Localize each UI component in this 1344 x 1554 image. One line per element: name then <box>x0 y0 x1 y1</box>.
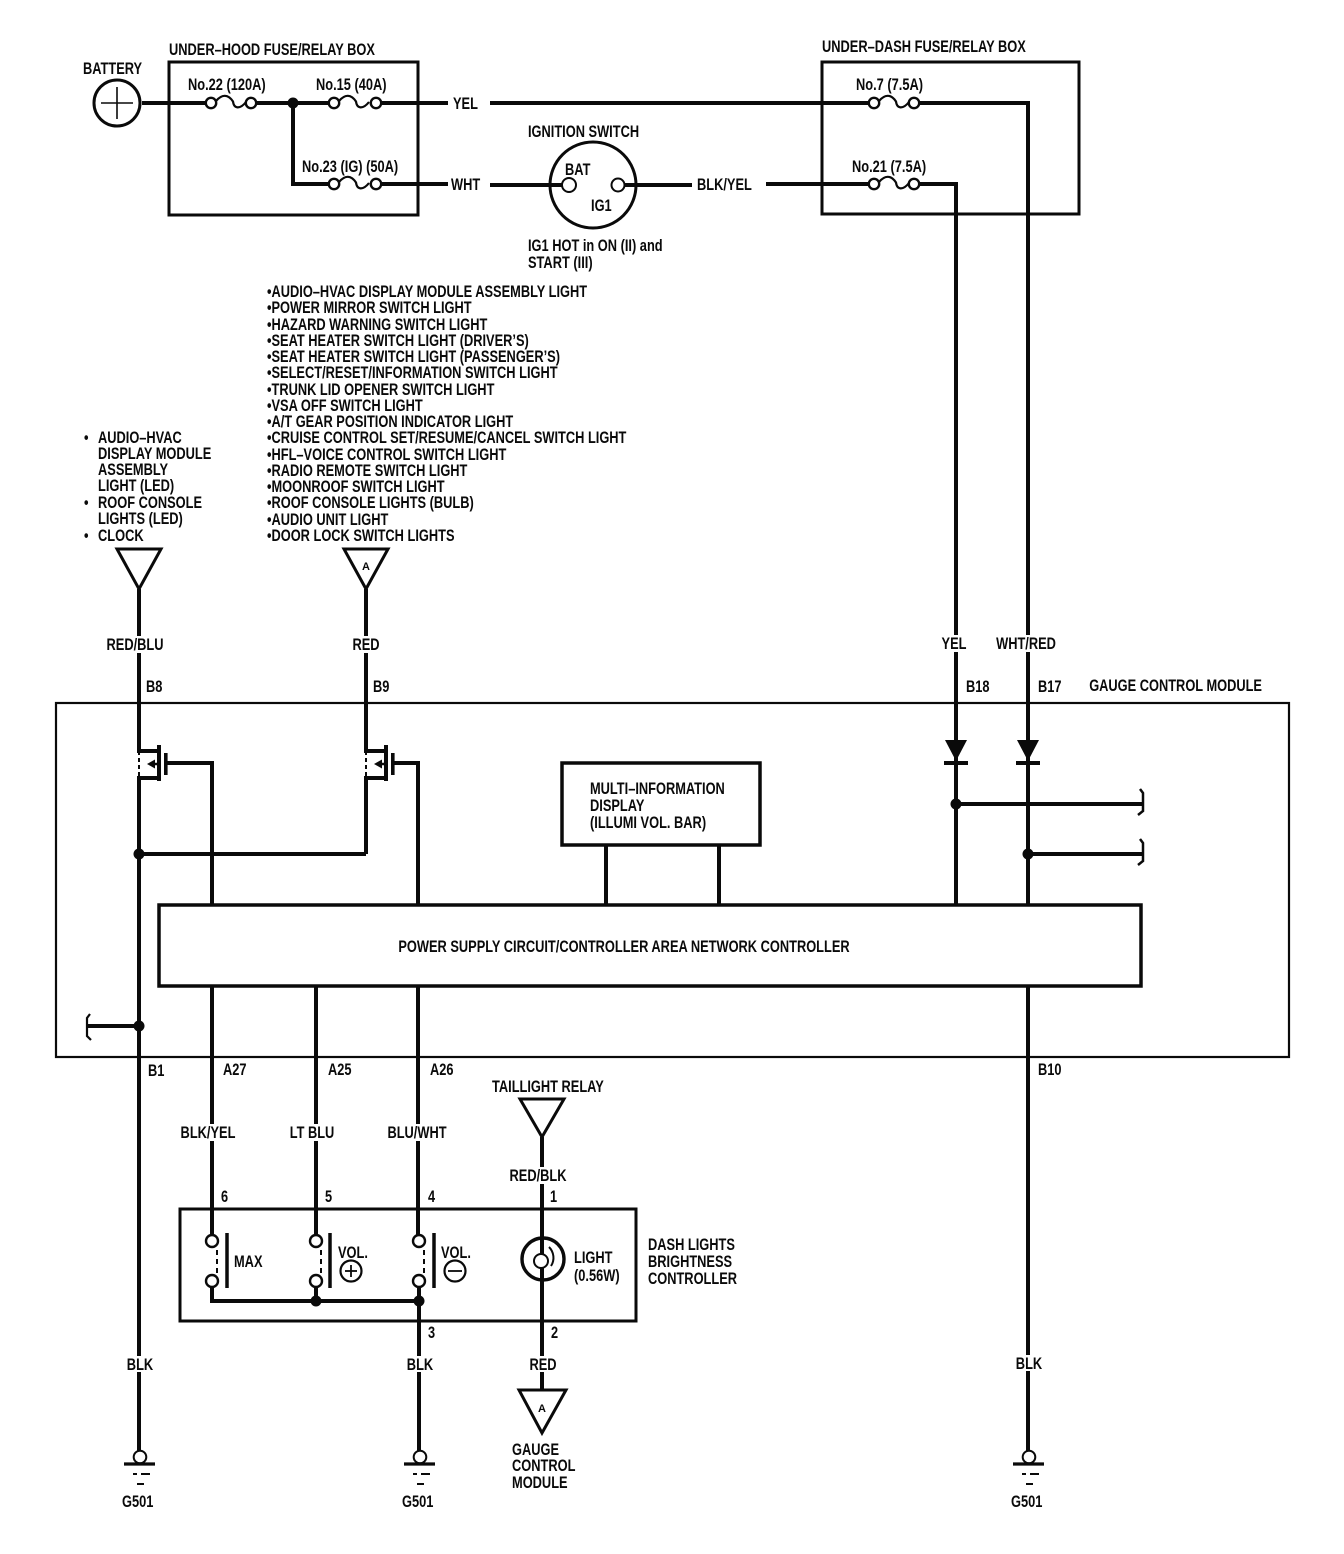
svg-text:•ROOF CONSOLE LIGHTS (BULB): •ROOF CONSOLE LIGHTS (BULB) <box>267 494 474 512</box>
svg-text:B17: B17 <box>1038 678 1062 696</box>
ground G501 middle <box>402 1451 435 1511</box>
svg-text:5: 5 <box>325 1188 332 1206</box>
wire into fuse No.21 <box>822 182 869 186</box>
wire fuse No.22 to junction <box>257 101 300 105</box>
wire YEL fuse No.15 to under-dash box <box>382 95 822 113</box>
svg-text:GAUGE CONTROL MODULE: GAUGE CONTROL MODULE <box>1089 677 1262 695</box>
wire A27 from controller <box>210 986 214 1057</box>
svg-text:VOL.: VOL. <box>441 1244 471 1262</box>
svg-text:LIGHT (LED): LIGHT (LED) <box>98 477 174 495</box>
svg-text:B1: B1 <box>148 1062 164 1080</box>
wire WHT/RED under-dash to module B17 <box>993 214 1059 703</box>
transistor Q1 <box>139 703 168 854</box>
wire RED/BLK relay to pin 1 <box>506 1137 570 1253</box>
svg-text:CONTROL: CONTROL <box>512 1457 575 1475</box>
svg-text:G501: G501 <box>402 1493 433 1511</box>
svg-text:No.23 (IG) (50A): No.23 (IG) (50A) <box>302 158 398 176</box>
wire into fuse No.7 <box>822 101 869 105</box>
svg-text:4: 4 <box>428 1188 436 1206</box>
svg-text:1: 1 <box>550 1188 557 1206</box>
svg-text:B8: B8 <box>146 678 162 696</box>
wire pin 2 RED to connector <box>524 1321 562 1390</box>
wire B10 from controller <box>1026 986 1030 1057</box>
wire source bus Q1 to Q2 <box>139 852 366 856</box>
svg-text:•POWER MIRROR SWITCH LIGHT: •POWER MIRROR SWITCH LIGHT <box>267 299 472 317</box>
svg-text:BLK: BLK <box>1016 1355 1042 1373</box>
connector triangle A to gauge control module <box>512 1390 575 1492</box>
wire A26 BLU/WHT to pin 4 <box>384 1057 450 1236</box>
ground G501 right <box>1011 1451 1044 1511</box>
svg-text:No.15 (40A): No.15 (40A) <box>316 76 387 94</box>
taillight relay connector triangle <box>492 1078 604 1137</box>
svg-text:No.21 (7.5A): No.21 (7.5A) <box>852 158 926 176</box>
multi-information display box <box>562 763 760 845</box>
wire B1 BLK to ground <box>120 1057 158 1452</box>
battery <box>83 60 142 126</box>
wire A26 from controller <box>416 986 420 1057</box>
svg-text:BLK: BLK <box>407 1356 433 1374</box>
wire WHT fuse No.23 to ignition switch BAT <box>382 176 562 194</box>
junction VOL plus bus <box>311 1296 322 1307</box>
svg-text:BLK/YEL: BLK/YEL <box>181 1124 236 1142</box>
svg-text:YEL: YEL <box>942 635 967 653</box>
svg-text:LT BLU: LT BLU <box>290 1124 335 1142</box>
svg-text:•CRUISE CONTROL SET/RESUME/CAN: •CRUISE CONTROL SET/RESUME/CANCEL SWITCH… <box>267 429 626 447</box>
wire B10 BLK to ground <box>1009 1057 1047 1452</box>
switch MAX <box>206 1233 263 1288</box>
wire BLK/YEL ignition IG1 to under-dash box <box>624 176 822 194</box>
svg-text:A: A <box>538 1403 546 1415</box>
wire MID right to controller <box>717 845 721 905</box>
wire fuse No.21 output bend down <box>920 184 956 214</box>
ground G501 left <box>122 1451 155 1511</box>
junction internal ground tap <box>134 1021 145 1032</box>
wire D2 output stub right <box>1028 839 1143 865</box>
junction node <box>288 98 299 109</box>
diode D1 <box>944 703 968 763</box>
under-dash fuse/relay box <box>822 38 1079 214</box>
transistor Q2 <box>366 703 395 854</box>
wire Q2 gate to controller <box>394 763 418 905</box>
svg-text:•: • <box>84 494 89 512</box>
svg-text:A26: A26 <box>430 1061 454 1079</box>
switch VOL minus <box>413 1233 471 1288</box>
svg-text:BRIGHTNESS: BRIGHTNESS <box>648 1253 732 1271</box>
svg-text:UNDER–DASH FUSE/RELAY BOX: UNDER–DASH FUSE/RELAY BOX <box>822 38 1026 56</box>
wire Q1 gate to controller <box>167 763 212 905</box>
svg-text:DASH LIGHTS: DASH LIGHTS <box>648 1236 735 1254</box>
svg-text:BATTERY: BATTERY <box>83 60 142 78</box>
wire battery to under-hood box <box>142 101 206 105</box>
wire RED/BLU connector to module B8 <box>104 589 168 703</box>
load list (left column) <box>84 429 211 545</box>
svg-text:BLU/WHT: BLU/WHT <box>387 1124 446 1142</box>
svg-text:BLK/YEL: BLK/YEL <box>697 176 752 194</box>
connector triangle A <box>344 549 388 589</box>
svg-text:RED/BLU: RED/BLU <box>107 636 164 654</box>
diode D2 <box>1016 703 1040 763</box>
svg-text:WHT: WHT <box>451 176 480 194</box>
svg-text:START (III): START (III) <box>528 254 593 272</box>
svg-text:No.22 (120A): No.22 (120A) <box>188 76 266 94</box>
svg-text:•SELECT/RESET/INFORMATION SWIT: •SELECT/RESET/INFORMATION SWITCH LIGHT <box>267 364 558 382</box>
junction D2 output <box>1023 849 1034 860</box>
junction VOL minus bus <box>414 1296 425 1307</box>
svg-text:RED: RED <box>529 1356 556 1374</box>
wire D1 to controller <box>954 763 958 905</box>
svg-text:POWER SUPPLY CIRCUIT/CONTROLLE: POWER SUPPLY CIRCUIT/CONTROLLER AREA NET… <box>398 938 849 956</box>
svg-text:DISPLAY: DISPLAY <box>590 797 644 815</box>
switch VOL plus <box>310 1233 368 1288</box>
svg-text:•: • <box>84 527 89 545</box>
internal ground stub <box>87 1014 139 1040</box>
svg-text:UNDER–HOOD FUSE/RELAY BOX: UNDER–HOOD FUSE/RELAY BOX <box>169 41 375 59</box>
svg-text:G501: G501 <box>1011 1493 1042 1511</box>
svg-text:•DOOR LOCK SWITCH LIGHTS: •DOOR LOCK SWITCH LIGHTS <box>267 527 455 545</box>
wire VOL minus lower contact to bus <box>417 1287 421 1301</box>
wire RED connector to module B9 <box>346 589 386 703</box>
svg-text:BLK: BLK <box>127 1356 153 1374</box>
wire junction down to No.23 row <box>291 103 295 184</box>
svg-text:LIGHT: LIGHT <box>574 1249 613 1267</box>
svg-text:A27: A27 <box>223 1061 247 1079</box>
ignition switch <box>528 123 663 272</box>
wire A25 from controller <box>314 986 318 1057</box>
power supply circuit/CAN controller box <box>159 905 1141 986</box>
svg-text:TAILLIGHT RELAY: TAILLIGHT RELAY <box>492 1078 604 1096</box>
svg-text:2: 2 <box>551 1324 558 1342</box>
svg-text:BAT: BAT <box>565 161 590 179</box>
svg-text:IG1 HOT in ON (II) and: IG1 HOT in ON (II) and <box>528 237 663 255</box>
svg-text:RED: RED <box>352 636 379 654</box>
svg-text:IG1: IG1 <box>591 197 612 215</box>
svg-text:WHT/RED: WHT/RED <box>996 635 1056 653</box>
wire YEL under-dash to module B18 <box>936 214 976 703</box>
svg-text:CLOCK: CLOCK <box>98 527 144 545</box>
svg-text:MODULE: MODULE <box>512 1474 568 1492</box>
svg-text:B9: B9 <box>373 678 389 696</box>
load list (right column) <box>267 283 626 545</box>
svg-text:IGNITION SWITCH: IGNITION SWITCH <box>528 123 639 141</box>
wire MID left to controller <box>604 845 608 905</box>
wire fuse No.7 output bend down <box>920 103 1028 214</box>
wire junction to fuse No.15 <box>293 101 329 105</box>
connector triangle left <box>117 549 161 589</box>
svg-text:No.7 (7.5A): No.7 (7.5A) <box>856 76 923 94</box>
fuse No.15 (40A) <box>316 76 387 108</box>
svg-text:YEL: YEL <box>453 95 478 113</box>
svg-text:(ILLUMI VOL. BAR): (ILLUMI VOL. BAR) <box>590 814 706 832</box>
fuse No.22 (120A) <box>188 76 266 108</box>
wire pin 3 BLK to ground <box>400 1301 438 1452</box>
svg-text:6: 6 <box>221 1188 228 1206</box>
wire Q1 source down to B1 <box>137 854 141 1057</box>
wire A27 BLK/YEL to pin 6 <box>178 1057 240 1236</box>
svg-text:A: A <box>362 561 370 573</box>
svg-text:B18: B18 <box>966 678 990 696</box>
wire A25 LT BLU to pin 5 <box>288 1057 338 1236</box>
wire to fuse No.23 <box>291 182 329 186</box>
svg-text:MULTI–INFORMATION: MULTI–INFORMATION <box>590 780 725 798</box>
svg-text:RED/BLK: RED/BLK <box>510 1167 567 1185</box>
svg-text:LIGHTS (LED): LIGHTS (LED) <box>98 510 183 528</box>
svg-text:MAX: MAX <box>234 1253 263 1271</box>
svg-text:(0.56W): (0.56W) <box>574 1267 620 1285</box>
fuse No.7 (7.5A) <box>856 76 923 108</box>
wire VOL plus lower contact to bus <box>314 1287 318 1301</box>
wire switch bus <box>212 1287 419 1301</box>
wire D2 to controller <box>1026 763 1030 905</box>
gauge control module box <box>56 677 1289 1057</box>
dash lights brightness controller box <box>180 1209 737 1321</box>
wire D1 output stub right <box>956 789 1143 815</box>
svg-text:CONTROLLER: CONTROLLER <box>648 1270 737 1288</box>
svg-text:VOL.: VOL. <box>338 1244 368 1262</box>
junction D1 output <box>951 799 962 810</box>
junction Q1 source <box>134 849 145 860</box>
svg-text:A25: A25 <box>328 1061 352 1079</box>
svg-text:G501: G501 <box>122 1493 153 1511</box>
svg-text:B10: B10 <box>1038 1061 1062 1079</box>
fuse No.23 (IG) (50A) <box>302 158 398 189</box>
svg-text:3: 3 <box>428 1324 435 1342</box>
fuse No.21 (7.5A) <box>852 158 926 189</box>
light bulb 0.56W <box>522 1238 620 1321</box>
under-hood fuse/relay box <box>169 41 418 215</box>
svg-text:•: • <box>84 429 89 447</box>
